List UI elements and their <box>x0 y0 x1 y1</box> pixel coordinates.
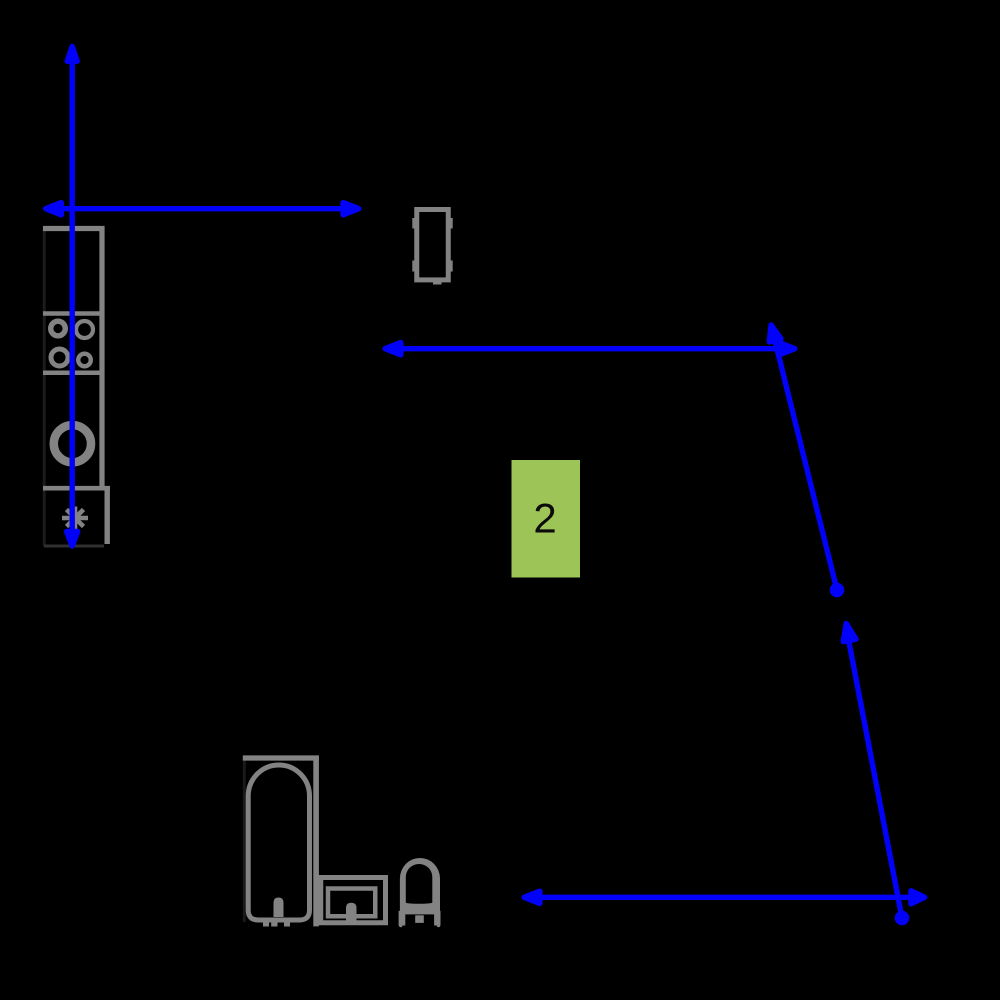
horizontal dimension arrow 2 head right <box>779 343 795 355</box>
fridge snowflake <box>62 507 88 530</box>
bathtub outer right line <box>313 756 319 927</box>
horizontal dimension arrow 2 head left <box>385 343 401 355</box>
diagonal dimension arrow 2 head <box>843 624 856 642</box>
shaft tab right upper <box>450 218 452 229</box>
stove top divider <box>43 311 105 316</box>
bathtub inner basin <box>248 765 309 920</box>
horizontal dimension arrow 3 head right <box>911 891 925 904</box>
toilet bowl inner hole <box>406 864 433 904</box>
horizontal dimension arrow 1 head left <box>46 203 62 215</box>
horizontal dimension arrow 1 line <box>52 206 348 211</box>
stove burner bottom-right <box>78 354 91 367</box>
diagonal dimension arrow 1 head <box>769 325 781 342</box>
fridge top divider <box>43 486 110 491</box>
diagonal dimension arrow 2 end dot <box>895 911 910 926</box>
vertical dimension arrow head bottom <box>67 532 78 547</box>
toilet tank knob <box>415 915 424 923</box>
washbasin inner rect <box>328 889 375 917</box>
svg-text:2: 2 <box>533 495 556 542</box>
ventilation shaft rectangle <box>417 210 449 280</box>
bathtub dark left edge <box>243 758 246 922</box>
washbasin tap <box>346 903 357 923</box>
shaft tab bottom <box>433 282 442 285</box>
stove burner top-right <box>76 321 93 338</box>
toilet bowl body <box>400 858 440 915</box>
room label 2 green box <box>512 460 581 578</box>
bathtub foot tick 1 <box>263 923 269 927</box>
stove bottom divider <box>43 370 105 375</box>
vertical dimension arrow line <box>69 58 74 534</box>
diagonal dimension arrow 1 end dot <box>830 583 845 598</box>
kitchen counter top line <box>43 226 105 231</box>
toilet foot right <box>437 922 440 927</box>
horizontal dimension arrow 3 head left <box>524 891 540 903</box>
vertical dimension arrow head top <box>67 47 77 62</box>
horizontal dimension arrow 3 line <box>530 895 912 900</box>
diagonal dimension arrow 2 line <box>848 637 902 918</box>
kitchen sink basin circle <box>54 425 91 462</box>
bathtub drain stem <box>274 898 284 918</box>
kitchen unit left dark edge <box>43 227 46 546</box>
stove burner top-left <box>51 321 66 336</box>
horizontal dimension arrow 1 head right <box>343 203 359 215</box>
fridge bottom dim line <box>44 545 104 548</box>
bathtub foot tick 3 <box>284 923 290 927</box>
bathtub outer top line <box>243 755 319 760</box>
toilet tank interior <box>405 914 434 925</box>
shaft tab left lower <box>412 261 414 272</box>
toilet tank <box>399 911 441 926</box>
fridge right edge <box>104 486 109 544</box>
horizontal dimension arrow 2 line <box>390 346 790 351</box>
washbasin outer rect <box>321 878 386 923</box>
toilet foot left <box>399 922 402 927</box>
shaft tab right lower <box>450 261 452 272</box>
shaft tab left upper <box>412 218 414 229</box>
bathtub foot tick 2 <box>271 923 277 927</box>
stove burner bottom-left <box>51 349 68 366</box>
diagonal dimension arrow 1 line <box>773 331 838 590</box>
kitchen counter right edge <box>99 226 104 490</box>
